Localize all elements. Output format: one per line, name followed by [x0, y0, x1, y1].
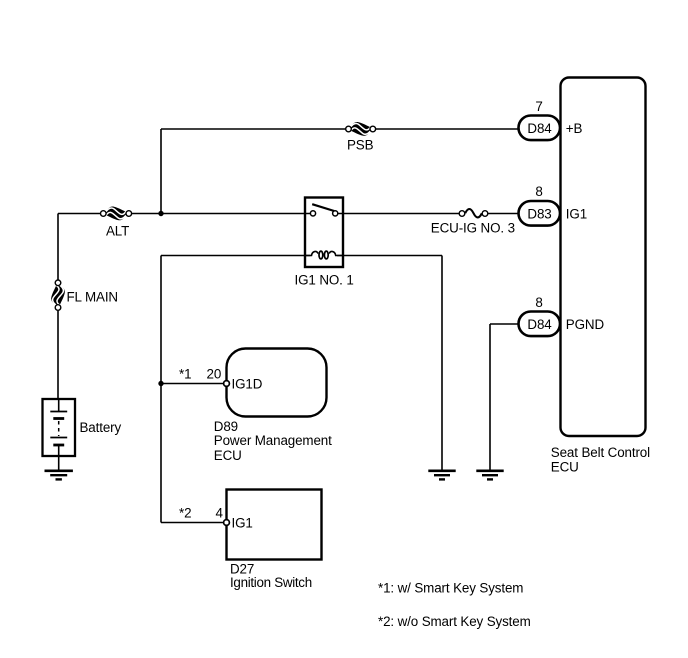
node: junction for power management ECU branch — [158, 381, 163, 386]
svg-text:ECU-IG NO. 3: ECU-IG NO. 3 — [431, 221, 515, 236]
label D89 Power Management ECU — [214, 419, 332, 463]
svg-text:ECU: ECU — [551, 459, 579, 474]
svg-text:PSB: PSB — [347, 138, 374, 153]
ground: PGND ground — [476, 471, 503, 480]
wire: left vertical battery feed lower segment — [57, 311, 59, 399]
wire: left vertical battery feed upper segment — [57, 214, 59, 280]
svg-text:Ignition Switch: Ignition Switch — [230, 575, 312, 590]
svg-text:Battery: Battery — [80, 420, 122, 435]
fusible link FL MAIN — [51, 280, 65, 310]
wire: branch riser down to ignition switch level — [160, 256, 162, 523]
svg-text:7: 7 — [535, 99, 542, 114]
wire: branch to ignition switch pin IG1 — [161, 522, 223, 524]
Power Management ECU box D89 — [224, 349, 327, 417]
svg-text:4: 4 — [216, 506, 224, 521]
svg-text:D84: D84 — [527, 121, 552, 136]
svg-text:20: 20 — [207, 367, 222, 382]
wire: relay coil left lead to branch riser — [161, 255, 311, 257]
svg-text:D84: D84 — [527, 317, 552, 332]
node: junction of riser and main feed — [158, 211, 163, 216]
svg-text:D89: D89 — [214, 419, 238, 434]
label D27 Ignition Switch — [230, 562, 312, 590]
wire: branch to power management ECU pin IG1D — [161, 383, 223, 385]
svg-text:FL MAIN: FL MAIN — [67, 290, 119, 305]
svg-text:*2: *2 — [179, 506, 191, 521]
svg-text:D83: D83 — [527, 207, 551, 222]
battery — [43, 399, 76, 470]
connector D84 pin 8 (PGND) — [519, 312, 561, 337]
svg-text:IG1: IG1 — [566, 207, 587, 222]
svg-text:8: 8 — [535, 184, 542, 199]
Ignition Switch box D27 — [224, 490, 322, 560]
wire: top +B feed, right segment from PSB fuse to connector D84 — [376, 128, 519, 130]
svg-text:*1: *1 — [179, 367, 191, 382]
connector D83 pin 8 (IG1) — [519, 201, 561, 226]
wire: relay switch output to ECU-IG NO. 3 fuse — [343, 213, 459, 215]
wire: from ALT fuse through node to relay switch contact — [132, 213, 310, 215]
svg-text:Seat Belt Control: Seat Belt Control — [551, 445, 650, 460]
label Seat Belt Control ECU — [551, 445, 650, 474]
svg-text:Power Management: Power Management — [214, 433, 332, 448]
wire: top +B feed, left segment from corner to PSB fuse — [161, 128, 346, 130]
connector D84 pin 7 (+B) — [519, 116, 561, 141]
svg-text:PGND: PGND — [566, 317, 605, 332]
wire: battery feed from left vertical to ALT fuse — [58, 213, 100, 215]
wire: PGND drop — [489, 324, 491, 470]
ground: battery ground — [45, 471, 73, 480]
wire: ECU-IG NO. 3 fuse to connector D83 — [488, 213, 519, 215]
svg-text:*2: w/o Smart Key System: *2: w/o Smart Key System — [378, 614, 531, 629]
fusible link ALT — [101, 207, 132, 221]
svg-text:*1: w/ Smart Key System: *1: w/ Smart Key System — [378, 581, 523, 596]
svg-text:ALT: ALT — [106, 224, 129, 239]
svg-text:ECU: ECU — [214, 448, 242, 463]
svg-text:IG1: IG1 — [232, 516, 253, 531]
svg-text:8: 8 — [535, 295, 542, 310]
svg-text:IG1D: IG1D — [232, 377, 263, 392]
relay IG1 NO. 1 — [305, 198, 343, 268]
fuse ECU-IG NO. 3 — [459, 209, 488, 217]
ground: relay coil ground — [428, 471, 455, 480]
wire: relay coil right lead — [337, 255, 442, 257]
svg-text:+B: +B — [566, 121, 583, 136]
ECU box: Seat Belt Control ECU — [561, 78, 646, 437]
fusible link PSB — [346, 122, 376, 136]
wire: coil ground drop — [441, 256, 443, 471]
wire: vertical riser from +B feed down to ALT node — [160, 129, 162, 214]
wire: PGND horizontal to connector D84 — [490, 323, 519, 325]
svg-text:IG1 NO. 1: IG1 NO. 1 — [295, 273, 354, 288]
